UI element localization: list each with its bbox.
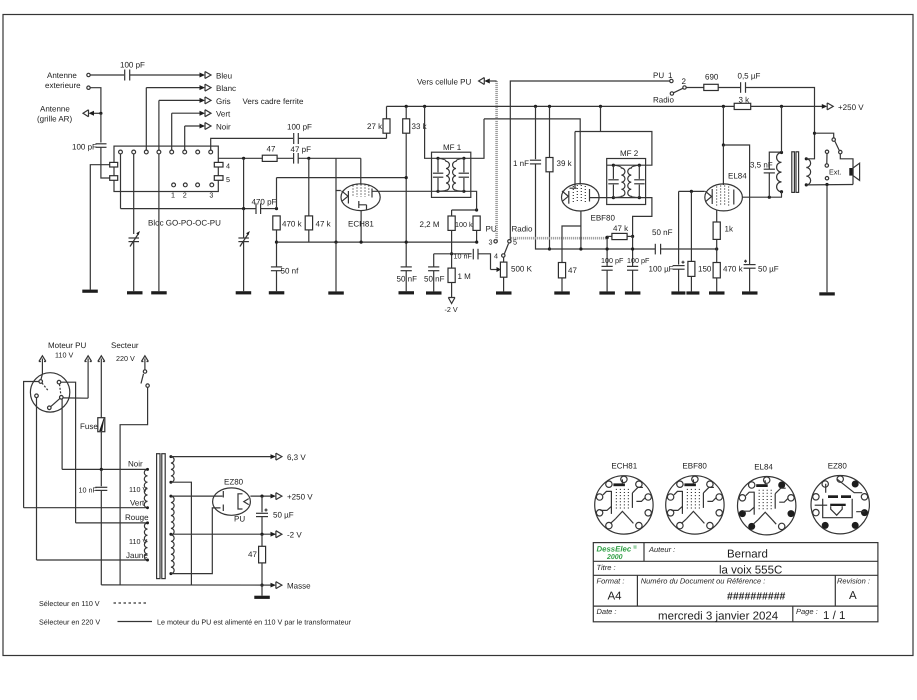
wire CV1 to ground <box>133 242 135 292</box>
junction ext ground <box>825 183 828 186</box>
ground masse <box>261 585 263 596</box>
connector pin 3 <box>35 394 39 398</box>
wire 6,3V out <box>171 456 274 458</box>
connector pin 4 <box>60 396 64 400</box>
wire 150 drop <box>690 191 692 261</box>
svg-text:47: 47 <box>267 145 276 154</box>
junction fuse-Noir <box>100 468 103 471</box>
svg-text:1k: 1k <box>725 225 734 234</box>
MF2 top through wire <box>607 164 646 166</box>
wire osc anode left stub <box>336 158 341 190</box>
ground ECH81 <box>328 291 344 294</box>
speaker body <box>849 168 853 176</box>
svg-text:EZ80: EZ80 <box>828 461 848 470</box>
ground 50nF osc <box>399 291 415 294</box>
wire 50nF grid to ground <box>433 271 435 292</box>
wire EL84 cathode line <box>679 190 705 192</box>
junction OPT feed <box>780 105 783 108</box>
wire MF2 top feed <box>575 132 652 166</box>
svg-text:6,3 V: 6,3 V <box>287 453 306 462</box>
svg-text:Secteur: Secteur <box>111 341 139 350</box>
wire rail down to 27k <box>386 106 388 118</box>
svg-text:ECH81: ECH81 <box>611 462 637 471</box>
wire EZ80 cathode to +250V <box>250 495 274 497</box>
transformer MF2 box <box>607 159 646 205</box>
wire 50nF branch down <box>433 254 435 267</box>
ground 100pF-2 <box>625 291 641 294</box>
wire grid resistor node <box>452 209 477 211</box>
svg-text:100 µF: 100 µF <box>649 265 674 274</box>
wire 2,2M bottom to grid cap node <box>451 230 453 268</box>
wire 27k to 100pF line <box>386 133 388 138</box>
wire pin4 to terminal bus <box>63 397 88 399</box>
junction 39k AF bus <box>548 247 551 250</box>
node +250 V <box>822 104 827 109</box>
wire Noir tap <box>62 468 147 470</box>
EL84 anode bar <box>733 190 735 205</box>
format cell divider <box>636 575 638 606</box>
svg-text:Antenne: Antenne <box>47 71 77 80</box>
svg-text:690: 690 <box>705 73 719 82</box>
svg-text:470 k: 470 k <box>282 220 303 229</box>
switch contact 3 <box>494 240 497 243</box>
page right shadow <box>912 17 915 656</box>
junction grid leak node <box>450 252 453 255</box>
ground ext <box>819 292 835 295</box>
svg-text:Vert: Vert <box>216 110 231 119</box>
junction AVC rail left end <box>275 241 278 244</box>
wire 0,5uF to speaker switch <box>746 88 815 134</box>
node Vert <box>172 112 204 114</box>
ground CV2 <box>236 291 252 294</box>
junction EL84 screen feed <box>722 105 725 108</box>
svg-text:50 µF: 50 µF <box>273 511 294 520</box>
svg-text:Masse: Masse <box>287 582 311 591</box>
node Bleu <box>200 73 206 78</box>
Bloc GO-PO-OC-PU box <box>114 146 218 191</box>
resistor 470 k (grid) <box>713 263 720 278</box>
junction -2V node <box>260 533 263 536</box>
tube ECH81 envelope <box>341 184 380 211</box>
capacitor 50 nF (grid) <box>428 266 439 268</box>
ground pin4 <box>151 291 167 294</box>
tube EBF80 envelope <box>562 184 600 211</box>
block top pin row <box>119 150 123 154</box>
svg-text:1 / 1: 1 / 1 <box>823 610 845 622</box>
wire 47k det right <box>627 235 633 237</box>
connector pin 2 <box>57 380 61 384</box>
svg-text:1 M: 1 M <box>458 272 472 281</box>
wire HT centre tap to -2V <box>171 533 276 535</box>
terminal antenna 2 <box>87 86 90 89</box>
svg-text:+250 V: +250 V <box>287 493 313 502</box>
switch PU contact 1 <box>670 79 673 82</box>
wire 1nF down to AF bus <box>536 164 550 249</box>
secondary HT winding <box>171 496 174 574</box>
junction 47k top <box>307 157 310 160</box>
switch secteur blade <box>141 374 144 384</box>
svg-text:PU: PU <box>486 225 497 234</box>
speaker switch blade <box>835 141 840 151</box>
junction antenna node <box>99 112 102 115</box>
wire shield dot to 47k <box>607 235 612 237</box>
wire 470k to 50nf <box>276 230 278 267</box>
EZ80 cathode bracket <box>238 494 243 509</box>
EL84 cathode bar <box>711 189 713 204</box>
ECH81 anode bar <box>371 189 373 198</box>
MF1 bottom through wire <box>432 190 471 192</box>
wire rail to 1nF <box>535 106 537 159</box>
wire 100pF to 27k foot <box>298 137 386 139</box>
ground 100pF-1 <box>599 291 615 294</box>
svg-text:50 µF: 50 µF <box>758 265 779 274</box>
speaker horn <box>853 163 860 180</box>
transformer OPT secondary <box>806 159 810 185</box>
wire 50uF drop <box>261 496 263 512</box>
title block row line 2 <box>593 574 878 576</box>
ground 50nf <box>269 291 285 294</box>
MF1 primary tuning cap <box>437 158 439 172</box>
wire junction down to 47k <box>308 158 310 216</box>
wire PU line top <box>510 81 669 240</box>
title block row line 3 <box>593 605 878 607</box>
svg-text:-2 V: -2 V <box>287 531 302 540</box>
tube socket EBF80 <box>666 462 724 534</box>
EBF80 cathode wedge <box>562 191 568 202</box>
capacitor 50 nF (osc) <box>401 266 412 268</box>
block left terminal 1 <box>110 162 118 167</box>
svg-text:mercredi 3 janvier 2024: mercredi 3 janvier 2024 <box>658 611 779 623</box>
wire 50nF to ground <box>405 271 407 292</box>
wire pin3 down bus <box>36 398 38 560</box>
wire 50uF top stub <box>749 264 751 265</box>
svg-text:27 k: 27 k <box>367 122 383 131</box>
AF return bus <box>550 248 656 250</box>
wire grid down into ECH81 <box>360 158 362 184</box>
wire pin1 to left bus <box>24 382 39 508</box>
wire detector node down <box>632 236 634 266</box>
wire C to Bleu arrow <box>130 74 204 76</box>
MF1 top through wire <box>432 157 471 159</box>
capacitor 50 uF <box>744 264 756 266</box>
EBF80 cathode bar <box>568 191 570 204</box>
svg-text:Ext.: Ext. <box>829 168 841 177</box>
wire grid node left to 50nF <box>434 253 452 255</box>
wire EL84 plate out <box>742 196 782 198</box>
MF2 secondary tuning cap <box>638 165 640 179</box>
wire 3,5nF bottom stub <box>768 173 770 197</box>
svg-text:47: 47 <box>568 266 577 275</box>
terminal secteur right <box>141 356 148 362</box>
switch contact 5 <box>508 240 511 243</box>
junction MF2 rail <box>599 105 602 108</box>
svg-text:(grille AR): (grille AR) <box>37 115 72 124</box>
svg-text:MF 2: MF 2 <box>620 149 639 158</box>
svg-text:47 k: 47 k <box>316 220 332 229</box>
resistor 39 k <box>546 158 553 172</box>
junction 3,5nF bottom <box>768 196 771 199</box>
wire pot bottom to ground <box>503 277 505 291</box>
speaker return wire <box>806 184 853 186</box>
wire IF link line <box>484 119 580 185</box>
wire 3,5nF top <box>769 152 781 169</box>
wire fuse node to 10nF <box>100 469 102 486</box>
junction screen node <box>722 143 725 146</box>
switch PU blade <box>674 88 683 93</box>
MF2 primary winding <box>613 165 625 197</box>
wire MF1 right plate return <box>471 191 477 210</box>
wire 2,2M top <box>451 210 453 216</box>
svg-text:3: 3 <box>489 238 493 247</box>
svg-text:+250 V: +250 V <box>838 103 864 112</box>
wire -2V to 47 <box>261 534 263 546</box>
junction 470pF line <box>242 207 245 210</box>
connector dashed link 2 <box>60 384 61 395</box>
revision cell divider <box>834 575 836 606</box>
svg-text:470 pF: 470 pF <box>252 198 277 207</box>
junction cathode AF bus <box>579 247 582 250</box>
svg-text:-2 V: -2 V <box>445 305 458 314</box>
junction cathode 150 <box>690 190 693 193</box>
connector pin 5 <box>48 406 52 410</box>
wire osc feedback line <box>277 177 407 179</box>
wire Vert down to pin5 <box>171 113 173 150</box>
node 6,3 V <box>271 454 276 459</box>
switch secteur contact top <box>143 370 146 373</box>
node +250 V (psu) <box>271 494 276 499</box>
svg-text:100 pF: 100 pF <box>287 123 312 132</box>
wire rail down to MF2 feed line <box>600 106 602 131</box>
svg-text:100 k: 100 k <box>455 220 473 229</box>
svg-text:100 pF: 100 pF <box>72 143 97 152</box>
wire 470k ground <box>716 278 718 292</box>
svg-text:Auteur :: Auteur : <box>648 545 675 554</box>
svg-text:Noir: Noir <box>216 122 231 131</box>
svg-text:Antenne: Antenne <box>40 105 70 114</box>
svg-text:Fuse: Fuse <box>80 422 98 431</box>
svg-text:Format :: Format : <box>597 577 625 586</box>
terminal antenna 1 <box>87 73 90 76</box>
wire screen node into tube <box>722 145 724 185</box>
wire 33k down to 50nF <box>405 133 407 267</box>
svg-text:Rouge: Rouge <box>125 513 149 522</box>
wire node up to osc coil line <box>276 178 278 209</box>
terminal motor left <box>39 356 46 362</box>
svg-text:Gris: Gris <box>216 97 231 106</box>
wire antenna1 to C <box>90 74 124 76</box>
wire IF filter column <box>606 238 608 266</box>
node Gris <box>159 99 204 101</box>
svg-text:5: 5 <box>226 175 230 184</box>
wire Gris down to pin4 <box>158 100 160 150</box>
page cell divider <box>792 606 794 622</box>
svg-text:110 V: 110 V <box>55 351 73 360</box>
svg-text:1: 1 <box>668 71 673 80</box>
svg-text:100 pF: 100 pF <box>627 256 650 265</box>
wire 47pF to tube grid <box>298 157 361 159</box>
capacitor 50 uF (psu) <box>256 512 268 514</box>
junction AVC rail right end <box>475 241 478 244</box>
wire ECH81 cathode down <box>360 211 362 243</box>
tube socket ECH81 <box>595 462 653 534</box>
wire 100pF to block terminal 2 <box>101 147 110 178</box>
capacitor 50 nf (AVC) <box>271 266 282 268</box>
junction 100k top <box>475 208 478 211</box>
wire OPT primary bottom <box>781 192 783 198</box>
junction radio shield to 47k <box>605 236 608 239</box>
wire 10nF to pot wiper <box>478 254 491 270</box>
svg-text:0,5 µF: 0,5 µF <box>738 72 761 81</box>
wire MF1 secondary top to EBF80 grid <box>471 119 484 158</box>
svg-text:A: A <box>849 590 857 602</box>
svg-text:Radio: Radio <box>653 96 674 105</box>
svg-text:3: 3 <box>209 191 213 200</box>
block bottom pin row <box>172 183 176 187</box>
wire arrow to shield <box>490 80 497 82</box>
wire pin4 through to ground <box>158 154 160 291</box>
ECH81 triode anode <box>359 201 367 211</box>
junction 39k rail <box>548 105 551 108</box>
node Masse <box>271 583 276 588</box>
wire EBF80 cathode down <box>580 211 582 249</box>
switch contact 4 <box>502 254 505 257</box>
wire 150 ground <box>690 276 692 291</box>
ext terminal bottom <box>825 177 828 180</box>
transformer primary winding lower <box>144 523 147 560</box>
wire 50nF to EL84 grid node <box>661 248 717 250</box>
tube socket EZ80 <box>811 461 869 534</box>
wire switch node to contact <box>815 133 834 138</box>
svg-text:2: 2 <box>682 77 687 86</box>
wire 1k to tube <box>716 210 718 222</box>
resistor 470 k <box>273 216 280 230</box>
MF2 secondary winding <box>628 165 640 197</box>
svg-text:2,2 M: 2,2 M <box>420 220 440 229</box>
terminal motor right <box>85 356 92 362</box>
connector dashed link 1 <box>42 383 48 391</box>
resistor 47 k (grid leak) <box>305 216 312 230</box>
wire cathode branch to 47 <box>562 226 581 263</box>
wire 50uF to -2V rail <box>261 517 263 535</box>
node -2 V (psu) <box>271 532 276 537</box>
wire junction down to 100pF <box>100 113 102 142</box>
transformer OPT core <box>792 152 795 193</box>
svg-text:Sélecteur en 110 V: Sélecteur en 110 V <box>39 599 100 608</box>
transformer OPT primary <box>777 153 782 192</box>
junction IF filter AF bus <box>606 247 609 250</box>
transformer core <box>157 454 160 579</box>
svg-text:®: ® <box>633 545 637 551</box>
motor connector shell <box>30 373 69 412</box>
svg-text:Page :: Page : <box>796 607 818 616</box>
junction EL84 grid node <box>715 247 718 250</box>
node -2 V (down arrow) <box>448 298 455 304</box>
ground 47 cathode <box>554 291 570 294</box>
wire pin4 down bus <box>61 399 63 469</box>
svg-text:100 pF: 100 pF <box>601 256 624 265</box>
wire grid node right to 10nF <box>452 253 472 255</box>
wire rail drop to ground <box>335 242 337 291</box>
EBF80 diode plate <box>570 187 577 189</box>
svg-text:4: 4 <box>226 162 230 171</box>
ground (left bus) <box>82 290 98 293</box>
ECH81 grid dashes <box>353 185 369 198</box>
wire 50uF ground <box>749 268 751 291</box>
svg-text:220 V: 220 V <box>116 354 135 363</box>
wire EBF80 plate to MF2 <box>590 197 607 199</box>
svg-text:Titre :: Titre : <box>597 563 616 572</box>
svg-text:47 pF: 47 pF <box>291 145 312 154</box>
MF2 bottom through wire <box>607 197 646 199</box>
terminal secteur left <box>98 356 105 362</box>
potentiometer 500 K <box>500 262 507 277</box>
EZ80 plate bar 2 <box>222 505 224 512</box>
node Noir <box>185 125 204 127</box>
wire osc node down to CV2 <box>243 209 245 238</box>
wire screen feed down <box>722 106 724 145</box>
wire OPT primary top to rail <box>781 106 783 152</box>
wire ECH81 plate to MF1 <box>372 190 432 192</box>
wire 470pF to 470k node <box>261 208 277 210</box>
junction 33k top <box>405 105 408 108</box>
junction cathode rail <box>360 241 363 244</box>
MF1 primary winding <box>438 158 449 191</box>
EBF80 grid dashes <box>573 185 585 203</box>
MF1 secondary winding <box>453 158 464 191</box>
wire osc anode to AVC rail <box>335 191 337 243</box>
junction AVC on 33k <box>405 241 408 244</box>
junction masse <box>260 584 263 587</box>
svg-text:2: 2 <box>183 191 187 200</box>
svg-text:EL84: EL84 <box>728 172 747 181</box>
MF1 secondary tuning cap <box>463 158 465 172</box>
node Antenne grille AR (left arrow terminal) <box>89 111 95 116</box>
wire 690 to 0,5uF <box>718 87 740 89</box>
wire contact2 to 690 <box>686 87 704 89</box>
wire arrow to junction <box>94 112 101 114</box>
shielded line vers cellule PU <box>495 81 498 240</box>
junction MF1 feed <box>423 105 426 108</box>
svg-text:47 k: 47 k <box>613 224 629 233</box>
svg-text:MF 1: MF 1 <box>443 143 462 152</box>
wire 100k bottom to AVC rail <box>476 230 478 242</box>
AVC rail <box>277 241 477 243</box>
wire pin2 down <box>133 154 135 234</box>
tube EZ80 envelope <box>213 488 251 515</box>
junction grid line <box>242 157 245 160</box>
wire antenna2 to junction <box>90 88 101 114</box>
junction 1nF rail <box>534 105 537 108</box>
switch PU contact radio <box>670 92 673 95</box>
wire grid node to 470k <box>716 249 718 263</box>
wire 50nf to ground <box>276 271 278 292</box>
svg-text:EL84: EL84 <box>754 462 773 471</box>
wire ext ground drop <box>826 185 828 293</box>
svg-text:10 nF: 10 nF <box>454 252 473 261</box>
wire switch down L <box>120 387 148 585</box>
svg-text:Vert: Vert <box>130 499 145 508</box>
svg-text:500 K: 500 K <box>511 265 533 274</box>
svg-text:2000: 2000 <box>606 554 623 561</box>
junction detector node <box>631 235 634 238</box>
tube socket EL84 <box>738 462 796 535</box>
ground 50nF grid <box>426 291 442 294</box>
wire terminal to pin1 <box>41 374 43 380</box>
ECH81 cathode bar <box>347 191 349 204</box>
svg-text:47: 47 <box>248 550 257 559</box>
junction osc line on 33k <box>405 176 408 179</box>
junction rail drop <box>334 241 337 244</box>
